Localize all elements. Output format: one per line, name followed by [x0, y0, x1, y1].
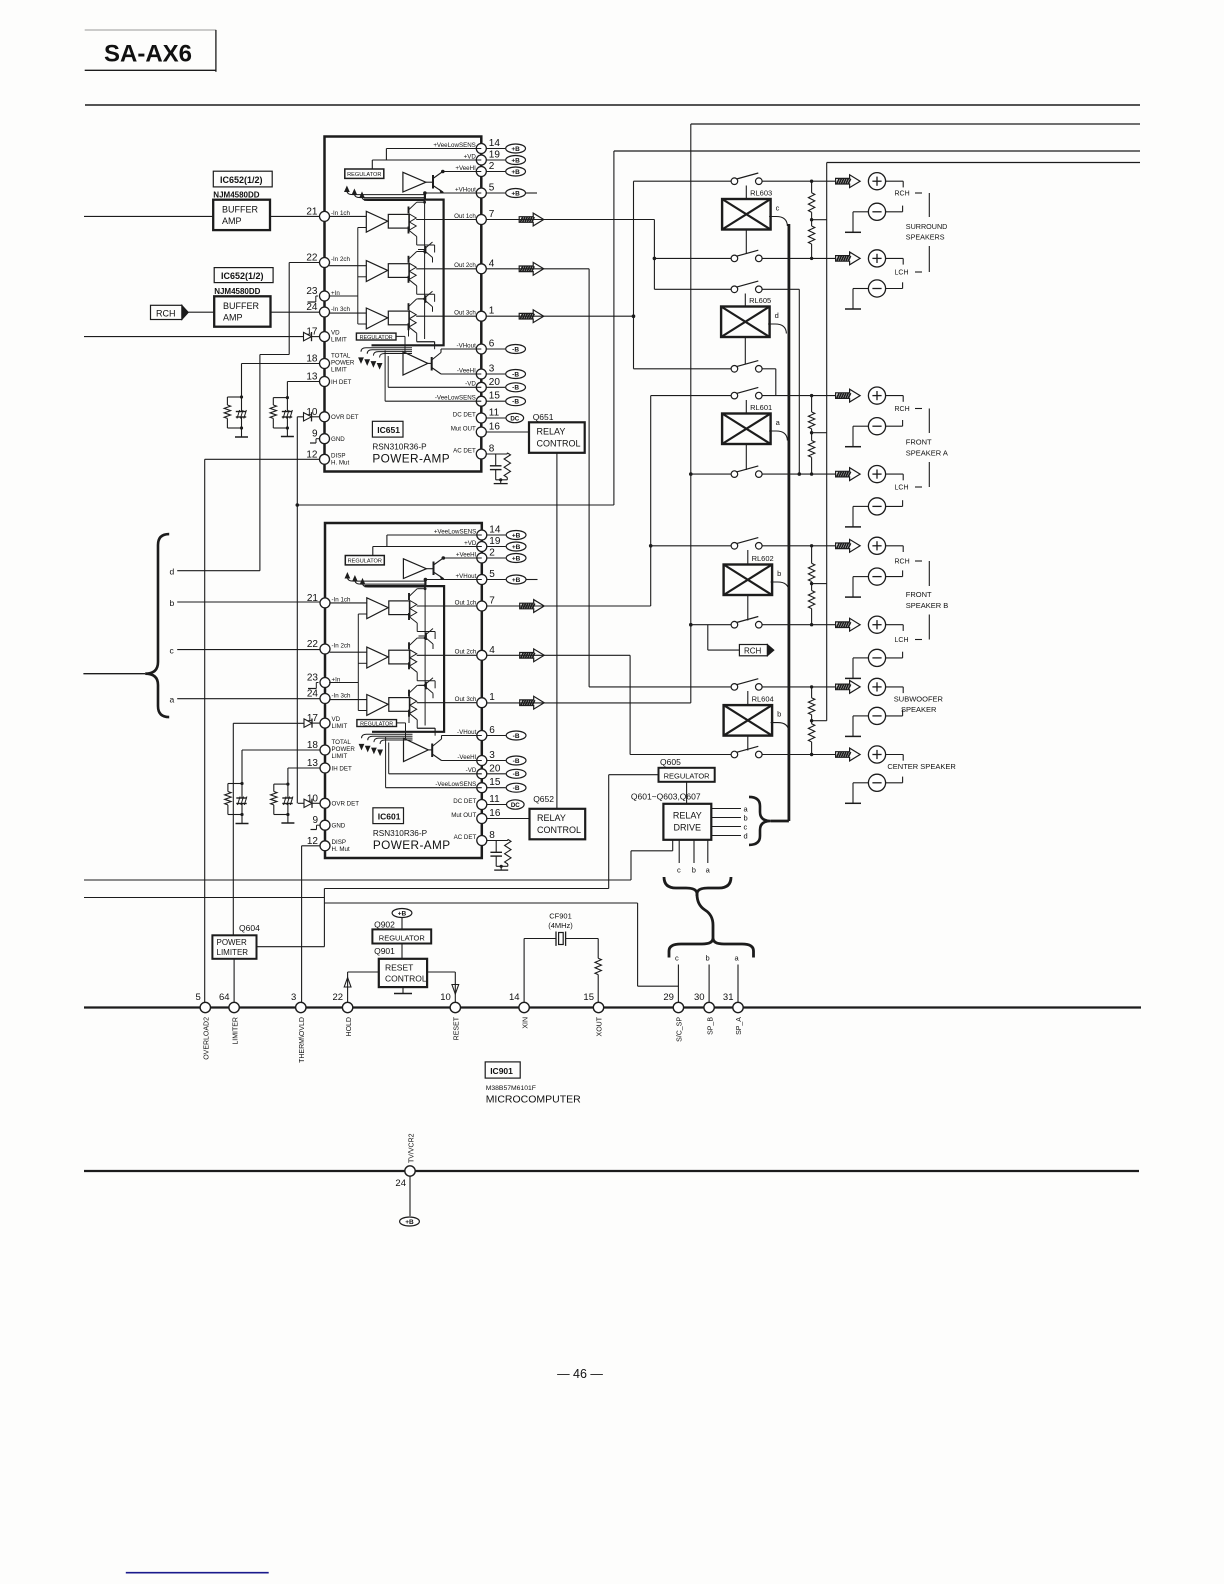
pin 24 TV/VCR2: [405, 1166, 415, 1176]
svg-text:b: b: [744, 813, 748, 822]
channel 2 bias pair: [425, 295, 427, 303]
bus pin 5 OVERLOAD2: [200, 1002, 210, 1012]
bus pin 31 SP_A: [733, 1002, 743, 1012]
channel 3 output wire: [416, 315, 477, 317]
relay drive outputs abcd: [711, 808, 741, 810]
resistor divider pair: [811, 687, 813, 698]
out arrows: [519, 213, 544, 226]
IC601 label: [373, 808, 404, 824]
wire brace to relay bus: [771, 820, 789, 823]
pin 1 Out 3ch: [476, 311, 486, 321]
svg-text:5: 5: [196, 992, 201, 1003]
bus pin 30 SP_B: [704, 1002, 714, 1012]
wire into brace: [83, 673, 145, 675]
switch RL602 upper: [731, 543, 738, 550]
svg-text:Q901: Q901: [374, 946, 395, 956]
-B supplies: [486, 348, 505, 350]
pin 19 +VD: [476, 155, 486, 165]
channel 2 output wire: [416, 268, 477, 270]
ground reset control: [402, 987, 404, 993]
svg-text:Q601~Q603,Q607: Q601~Q603,Q607: [631, 792, 701, 802]
wire line C: [84, 897, 324, 899]
svg-text:DC DET: DC DET: [453, 411, 476, 418]
wire out1ch IC651: [486, 219, 654, 221]
svg-text:FRONT: FRONT: [906, 590, 932, 599]
svg-text:64: 64: [219, 992, 230, 1003]
relay RL603: [722, 199, 771, 230]
svg-text:5: 5: [489, 183, 495, 194]
relay control box: [529, 422, 585, 453]
svg-text:8: 8: [489, 444, 495, 455]
svg-text:LCH: LCH: [895, 270, 909, 277]
wire IC601 pin17 to power limiter: [233, 722, 304, 724]
-VD wire: [388, 386, 481, 388]
regulator box (bottom): [356, 333, 396, 340]
svg-text:30: 30: [694, 992, 705, 1003]
channel 1 amp: [329, 215, 366, 217]
channel 1 upper transistor: [408, 207, 410, 214]
svg-text:LIMITER: LIMITER: [232, 1017, 239, 1045]
svg-text:HOLD: HOLD: [346, 1017, 353, 1036]
RCH output tag: [739, 645, 767, 656]
AC det RC network: [486, 453, 507, 455]
svg-text:REGULATOR: REGULATOR: [360, 335, 393, 341]
svg-text:9: 9: [312, 429, 318, 440]
svg-text:+B: +B: [511, 157, 520, 164]
channel 3 amp: [329, 312, 366, 314]
svg-text:-VeeHI: -VeeHI: [457, 367, 476, 374]
svg-text:TOTAL: TOTAL: [331, 353, 351, 360]
svg-text:10: 10: [306, 407, 318, 418]
svg-text:TV/VCR2: TV/VCR2: [408, 1133, 415, 1163]
svg-text:-B: -B: [512, 371, 519, 378]
svg-text:d: d: [775, 311, 779, 320]
relay RL605: [721, 307, 770, 338]
svg-text:-VD: -VD: [465, 381, 476, 388]
switch RL605 upper: [731, 286, 738, 293]
svg-text:22: 22: [306, 253, 318, 264]
wire pin19 net: [372, 159, 481, 161]
bus line IC901: [84, 1006, 1141, 1008]
pin18 RC pair: [242, 363, 321, 365]
wire a: [177, 698, 320, 700]
svg-text:Q604: Q604: [239, 923, 260, 933]
wire pin22 chain: [289, 262, 320, 264]
svg-text:BUFFER: BUFFER: [223, 301, 260, 311]
wire relay control Q651 to Q652: [556, 453, 558, 809]
diode pin10: [304, 413, 312, 421]
svg-text:SPEAKER: SPEAKER: [901, 705, 937, 714]
pin 24: [320, 307, 330, 317]
wire RL602u to frontB RCH +: [762, 545, 836, 547]
svg-text:BUFFER: BUFFER: [222, 205, 259, 215]
pin 3 -VeeHI: [476, 369, 486, 379]
feedback rail: [357, 228, 359, 325]
svg-text:RCH: RCH: [156, 308, 176, 318]
wire top rail 3: [614, 150, 1140, 152]
cable bundle brace lower: [669, 938, 713, 958]
wire Q605 to relay drive: [686, 782, 688, 804]
svg-text:-B: -B: [512, 385, 519, 392]
pin 15 -VeeLowSENS: [476, 396, 486, 406]
wire rail2 vertical: [690, 124, 692, 703]
cable bundle brace upper: [664, 877, 697, 896]
relay RL604: [724, 705, 773, 736]
svg-text:SUBWOOFER: SUBWOOFER: [894, 695, 944, 704]
pin 12: [320, 454, 330, 464]
svg-text:POWER-AMP: POWER-AMP: [372, 452, 450, 466]
svg-text:Out 2ch: Out 2ch: [454, 262, 476, 269]
regulator box (top): [345, 169, 384, 178]
wire input to buffer1: [84, 215, 213, 217]
resistor divider pair: [811, 396, 813, 412]
wires cba to bus pins: [677, 965, 679, 1003]
svg-text:DISP: DISP: [331, 453, 345, 460]
IC651 label: [372, 421, 403, 437]
svg-text:24: 24: [395, 1178, 406, 1189]
svg-text:a: a: [170, 695, 175, 705]
output stage lower links: [417, 341, 435, 343]
front B RCH terminals: [836, 539, 861, 552]
cable bundle squiggle: [697, 894, 713, 938]
output brace }: [749, 797, 771, 845]
surround RCH terminals: [836, 175, 861, 188]
pin 9: [320, 434, 330, 444]
svg-text:THERM\OVLD: THERM\OVLD: [299, 1017, 306, 1063]
svg-text:b: b: [170, 598, 175, 608]
relay RL601: [722, 414, 771, 445]
pin 23: [320, 291, 330, 301]
svg-text:RELAY: RELAY: [537, 427, 566, 437]
input brace: [145, 534, 169, 717]
svg-text:21: 21: [306, 206, 318, 217]
wire +In: [329, 295, 358, 297]
svg-text:SURROUND: SURROUND: [906, 222, 948, 231]
wire out3ch IC651: [486, 315, 633, 317]
svg-text:CF901: CF901: [549, 912, 572, 921]
svg-text:3: 3: [291, 992, 296, 1003]
svg-text:-In 2ch: -In 2ch: [331, 256, 350, 263]
switch RL603 lower: [731, 255, 738, 262]
svg-text:19: 19: [489, 150, 501, 161]
wire to RL602 upper: [651, 545, 731, 547]
svg-text:SPEAKERS: SPEAKERS: [906, 233, 945, 242]
svg-text:SPEAKER B: SPEAKER B: [906, 601, 949, 610]
wire RCH tag drop: [707, 625, 709, 650]
buffer amp 2: [214, 296, 270, 326]
wire line A: [84, 879, 631, 881]
wire buffer2 to pin24: [271, 311, 320, 313]
svg-text:-VHout: -VHout: [457, 342, 477, 349]
svg-text:10: 10: [440, 992, 451, 1003]
pin 4 Out 2ch: [476, 264, 486, 274]
pin 17: [320, 332, 330, 342]
resistor divider pair: [811, 546, 813, 564]
wire pin5 +VHout: [425, 192, 481, 194]
svg-text:GND: GND: [331, 436, 345, 443]
svg-text:14: 14: [509, 992, 520, 1003]
channel 3 lower transistor: [408, 323, 410, 330]
footer blue line: [126, 1572, 269, 1574]
svg-text:XIN: XIN: [522, 1017, 529, 1029]
regulator transistor (top): [432, 175, 434, 189]
svg-text:Out 1ch: Out 1ch: [454, 213, 476, 220]
svg-text:RESET: RESET: [385, 963, 413, 973]
pin 16 Mut OUT: [476, 427, 486, 437]
svg-text:14: 14: [489, 138, 501, 149]
svg-text:1: 1: [489, 306, 495, 317]
wire RL605l to RL601u link: [762, 368, 776, 370]
svg-text:4: 4: [489, 258, 495, 269]
jog: [323, 889, 325, 947]
front B LCH terminals: [836, 618, 861, 631]
pin 2 +VeeHI: [476, 167, 486, 177]
svg-text:SP_B: SP_B: [707, 1017, 714, 1035]
wire RL603u-RL605l vertical: [633, 181, 635, 369]
regulator amp (top): [403, 172, 426, 192]
wire to RL605 upper: [654, 288, 731, 290]
resistor divider pair: [811, 181, 813, 193]
svg-text:H. Mut: H. Mut: [331, 460, 350, 467]
wire mut out: [486, 431, 529, 433]
surround LCH terminals: [836, 252, 861, 265]
RCH input tag: [151, 305, 182, 319]
svg-text:d: d: [170, 567, 175, 577]
bus pin 14 XIN: [519, 1002, 529, 1012]
subwoofer terminals: [836, 681, 861, 694]
svg-text:RELAY: RELAY: [673, 811, 702, 821]
bus pin 15 XOUT: [593, 1002, 603, 1012]
regulator box Q605: [659, 768, 715, 782]
svg-text:RL601: RL601: [750, 403, 772, 412]
reset control box: [379, 959, 427, 987]
svg-text:IC652(1/2): IC652(1/2): [220, 175, 263, 185]
svg-text:IC901: IC901: [490, 1066, 513, 1076]
channel 1 output wire: [416, 219, 477, 221]
wire to RL602 lower: [691, 624, 731, 626]
switch RL605 lower: [731, 366, 738, 373]
wire to RL601 upper: [651, 395, 731, 397]
power-amp IC outline: [325, 137, 482, 472]
svg-text:RL604: RL604: [752, 695, 774, 704]
svg-text:RL605: RL605: [749, 296, 771, 305]
front A LCH terminals: [836, 468, 861, 481]
svg-text:11: 11: [489, 408, 500, 419]
svg-text:Q902: Q902: [374, 920, 395, 930]
bias feed with down arrows: [361, 348, 412, 352]
wire power limiter to jog: [257, 946, 325, 948]
pin 5 +VHout: [476, 188, 486, 198]
wire d: [177, 570, 260, 572]
power limiter box: [212, 935, 256, 959]
wire top rail 2: [691, 123, 1140, 125]
wire out2ch IC651: [486, 268, 589, 270]
wire b: [177, 601, 320, 603]
svg-text:IH DET: IH DET: [331, 379, 352, 386]
+B supplies: [486, 148, 505, 150]
+B for Q902: [392, 909, 412, 918]
wire reset to bus pin10 with down arrow: [427, 971, 455, 973]
switch RL601 lower: [731, 471, 738, 478]
relay drive cba drops: [678, 840, 680, 863]
wire to RL604 lower: [630, 754, 731, 756]
svg-text:17: 17: [306, 327, 318, 338]
wire to RL604 upper: [589, 686, 731, 688]
bus pin 22 HOLD: [342, 1002, 352, 1012]
svg-text:RCH: RCH: [895, 559, 910, 566]
wire Q605 left: [609, 774, 659, 776]
svg-text:20: 20: [489, 377, 501, 388]
pin 22: [320, 258, 330, 268]
svg-text:13: 13: [306, 372, 318, 383]
title box SA-AX6: [85, 29, 216, 31]
svg-text:2: 2: [489, 161, 495, 172]
wire out3ch IC601 (LCH rail): [486, 702, 691, 704]
wire top rail 1: [85, 104, 1140, 106]
svg-text:+B: +B: [511, 169, 520, 176]
wire reset to bus pin22 with up arrow: [348, 971, 379, 973]
svg-text:Mut OUT: Mut OUT: [451, 425, 476, 432]
svg-text:IC601: IC601: [378, 812, 401, 822]
-VHout wire: [441, 348, 481, 350]
wire line S to uC pin29: [324, 902, 637, 904]
IC901 label box: [485, 1062, 520, 1078]
channel 2 upper transistor: [408, 256, 410, 263]
wire to RL601 lower: [691, 473, 731, 475]
svg-text:SP_A: SP_A: [736, 1017, 743, 1035]
DC detect tag: [486, 417, 506, 419]
wire out1ch IC601: [486, 605, 650, 607]
-VeeHI wire: [441, 373, 481, 375]
wire RL603u to surround RCH +: [762, 180, 836, 182]
wire rail3 vertical: [613, 151, 615, 505]
svg-text:b: b: [777, 569, 781, 578]
svg-text:LIMIT: LIMIT: [331, 337, 347, 344]
svg-text:6: 6: [489, 339, 495, 350]
TV/VCR2 line: [84, 1170, 1139, 1172]
svg-text:+VeeHI: +VeeHI: [455, 165, 476, 172]
wire left to pin17 diode: [84, 336, 304, 338]
bus pin 10 RESET: [450, 1002, 460, 1012]
svg-text:16: 16: [489, 422, 501, 433]
svg-text:c: c: [776, 204, 780, 213]
svg-text:c: c: [677, 866, 681, 875]
svg-text:LIMIT: LIMIT: [331, 367, 347, 374]
wire RL604u to subwoofer +: [762, 686, 836, 688]
svg-text:POWER: POWER: [331, 360, 355, 367]
svg-text:b: b: [777, 710, 781, 719]
svg-text:15: 15: [583, 992, 594, 1003]
pin13 RC pair: [287, 381, 320, 383]
channel 2 amp: [329, 265, 366, 267]
svg-text:AMP: AMP: [222, 216, 242, 226]
front A RCH terminals: [836, 389, 861, 402]
wire IC601 pin12 to bus pin3: [302, 845, 321, 847]
pin 11 DC DET: [476, 413, 486, 423]
svg-text:b: b: [706, 954, 710, 963]
svg-text:3: 3: [489, 364, 495, 375]
svg-text:XOUT: XOUT: [597, 1016, 604, 1036]
IC652 (1/2) label box 2: [214, 268, 273, 283]
svg-text:VD: VD: [331, 330, 340, 337]
wire top rail 4: [827, 162, 1140, 164]
svg-text:23: 23: [306, 286, 318, 297]
resistor xout: [597, 939, 599, 959]
+VH internal rail: [424, 200, 426, 339]
svg-text:M38B57M6101F: M38B57M6101F: [486, 1085, 536, 1092]
wire OVR-det vertical: [296, 417, 298, 804]
svg-text:MICROCOMPUTER: MICROCOMPUTER: [486, 1094, 581, 1106]
svg-text:+B: +B: [398, 910, 407, 917]
svg-text:-VeeLowSENS: -VeeLowSENS: [435, 395, 476, 402]
channel 1 lower transistor: [408, 227, 410, 234]
svg-text:29: 29: [663, 992, 674, 1003]
wire pin24 to +B: [409, 1176, 411, 1216]
wire OVR branch to relays region: [297, 504, 614, 506]
svg-text:AC DET: AC DET: [453, 447, 476, 454]
svg-text:DC: DC: [510, 415, 519, 422]
switch RL602 lower: [731, 621, 738, 628]
pin 13: [320, 377, 330, 387]
svg-text:Out 3ch: Out 3ch: [454, 310, 476, 317]
wire RL604l to center +: [762, 754, 836, 756]
switch RL601 upper: [731, 392, 738, 399]
wire pin2 net: [443, 171, 482, 173]
svg-text:-B: -B: [512, 399, 519, 406]
svg-text:c: c: [744, 822, 748, 831]
svg-text:RESET: RESET: [454, 1016, 461, 1040]
svg-text:RL603: RL603: [750, 189, 772, 198]
channel 3 upper transistor: [408, 303, 410, 310]
wire pin12 chain to bus pin5: [205, 458, 320, 460]
wire RL605u drop: [762, 288, 799, 290]
svg-text:POWER: POWER: [217, 938, 247, 947]
svg-text:DRIVE: DRIVE: [674, 823, 702, 833]
regulator box Q902: [372, 929, 431, 943]
svg-text:RCH: RCH: [744, 647, 762, 656]
channel 2 lower transistor: [408, 276, 410, 283]
svg-text:REGULATOR: REGULATOR: [379, 933, 426, 942]
buffer amp 1: [213, 200, 270, 230]
pin 8 AC DET: [476, 449, 486, 459]
svg-text:Q605: Q605: [660, 757, 681, 767]
wire RCH tag to buffer2: [188, 311, 214, 313]
wire resistor-tap vertical: [826, 163, 828, 721]
svg-text:-In 3ch: -In 3ch: [331, 306, 350, 313]
switch RL604 lower: [731, 751, 738, 758]
svg-text:SA-AX6: SA-AX6: [104, 41, 192, 68]
svg-text:+VeeLowSENS: +VeeLowSENS: [433, 142, 475, 149]
pin23 stub: [319, 311, 321, 313]
svg-text:CONTROL: CONTROL: [537, 439, 581, 449]
svg-text:31: 31: [723, 992, 734, 1003]
-VeeLowSENS wire: [385, 400, 481, 402]
pin 6 -VHout: [476, 344, 486, 354]
svg-text:LIMITER: LIMITER: [217, 948, 249, 957]
pin 10: [320, 412, 330, 422]
wire to RL605 lower: [634, 368, 732, 370]
wire buffer1 to pin21: [270, 215, 320, 217]
relay drive bundle thick line: [788, 224, 791, 821]
crystal CF901: [523, 939, 525, 1003]
pin9 gnd stub: [316, 438, 320, 440]
wire RL602l to frontB LCH +: [762, 624, 836, 626]
regulator amp (bottom): [403, 352, 428, 375]
svg-text:CONTROL: CONTROL: [385, 974, 427, 984]
wire out2ch IC601: [486, 654, 630, 656]
IC652 (1/2) label box 1: [213, 171, 272, 187]
svg-text:7: 7: [489, 209, 495, 220]
